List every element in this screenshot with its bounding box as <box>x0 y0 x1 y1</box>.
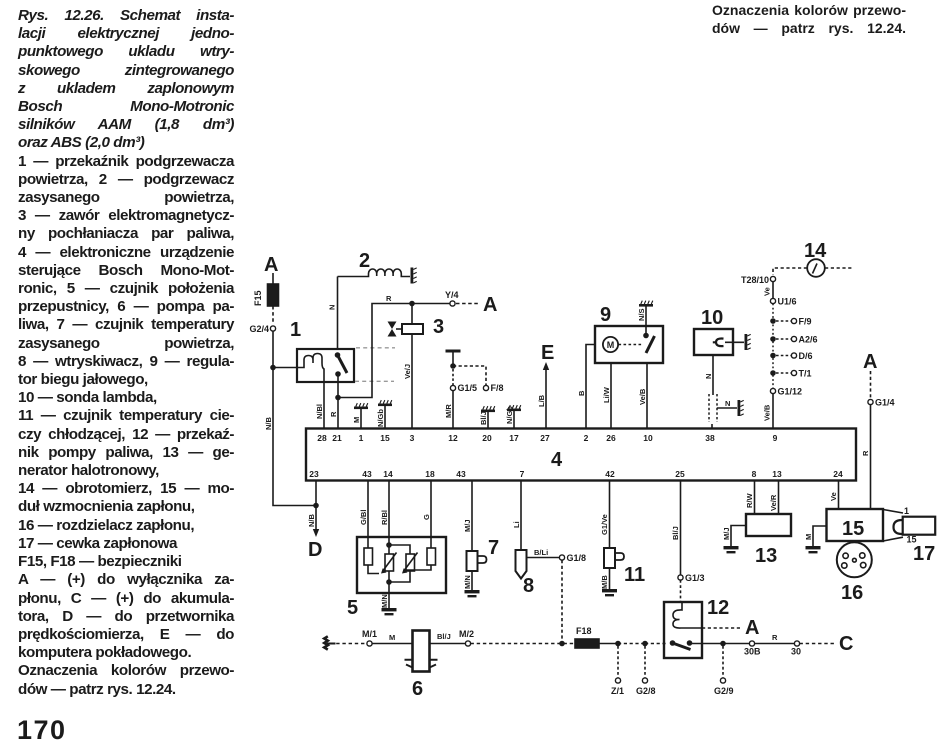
wire 8 branch to G1/8 <box>527 557 560 559</box>
connector M/2 <box>465 641 470 646</box>
svg-text:D: D <box>308 539 322 561</box>
svg-text:7: 7 <box>520 469 525 479</box>
svg-text:20: 20 <box>482 433 492 443</box>
relay 1 switch pivot <box>335 371 341 377</box>
resistor b in 5 <box>385 554 394 571</box>
connector G1/3 <box>678 575 683 580</box>
svg-text:M/B: M/B <box>600 575 609 589</box>
svg-text:Ve/R: Ve/R <box>769 494 778 511</box>
wire pin 8 to hall sender 13 <box>754 481 756 514</box>
svg-text:25: 25 <box>675 469 685 479</box>
dashed wire 12 to A <box>702 627 742 629</box>
coolant sensor 11 body <box>604 548 615 568</box>
dashed wire A to G1/4 <box>870 371 872 399</box>
svg-text:N/Gb: N/Gb <box>505 406 514 424</box>
svg-text:Li/W: Li/W <box>602 386 611 403</box>
tachometer 14 gauge <box>807 259 825 277</box>
svg-text:43: 43 <box>362 469 372 479</box>
svg-text:T28/10: T28/10 <box>741 275 769 285</box>
svg-text:4: 4 <box>551 449 563 471</box>
shield branch to chassis <box>717 407 737 409</box>
svg-text:8: 8 <box>523 575 534 597</box>
svg-text:Bl/J: Bl/J <box>671 526 680 540</box>
connector G2/9 <box>720 678 725 683</box>
wire junction to Y/4 <box>412 303 450 305</box>
dashed branch D/6 <box>776 355 791 357</box>
svg-text:30B: 30B <box>744 647 761 657</box>
svg-text:N: N <box>328 305 337 310</box>
switch contact in 9 <box>643 333 649 339</box>
connector G1/5 <box>450 385 455 390</box>
wire pin21 from switch <box>337 374 339 428</box>
svg-text:Ve: Ve <box>829 492 838 501</box>
wire switch junction to purge valve riser <box>338 304 412 398</box>
svg-text:B: B <box>577 390 586 396</box>
svg-text:G2/4: G2/4 <box>249 324 269 334</box>
svg-text:A: A <box>264 254 278 276</box>
relay 12 switch blade <box>673 643 691 650</box>
wire 7 to ground <box>471 571 473 590</box>
svg-text:15: 15 <box>380 433 390 443</box>
relay 1 box <box>297 349 354 382</box>
chassis ground above 9 <box>639 301 653 307</box>
wire to 30B <box>723 643 749 645</box>
wire to relay 1 <box>273 367 297 369</box>
hall sender 13 box <box>746 514 791 536</box>
wire A to F15 <box>272 273 274 284</box>
svg-text:30: 30 <box>791 647 801 657</box>
connector D/6 <box>791 353 796 358</box>
node junction D/6 <box>770 353 776 359</box>
connector G1/8 <box>559 555 564 560</box>
node junction bottom 5 <box>386 579 392 585</box>
wire wiper b down to ground <box>388 571 390 608</box>
wire G1/4 down to module 15 <box>870 405 872 510</box>
svg-text:A: A <box>745 617 759 639</box>
svg-text:17: 17 <box>913 543 935 565</box>
svg-text:M/1: M/1 <box>362 629 377 639</box>
wire T28/10 to U1/6 <box>772 282 774 299</box>
dashed rail to M/1 <box>330 643 366 645</box>
svg-text:21: 21 <box>332 433 342 443</box>
ECU box U4 outline <box>306 429 856 481</box>
wire F18 to junction <box>599 643 618 645</box>
relay 12 switch contact left <box>670 640 676 646</box>
relay 1 switch contact <box>335 352 341 358</box>
wire 10 down <box>712 355 714 395</box>
svg-text:U1/6: U1/6 <box>778 297 797 307</box>
svg-text:Ve: Ve <box>763 287 772 296</box>
wire to pin 38 <box>711 424 713 428</box>
ground below 5 <box>382 608 397 615</box>
ECU bottom pin numbers 23 43 14 18 43 7 42 25 8 13 24 <box>309 469 843 479</box>
dashed wire G1/3 to relay 12 <box>680 580 682 602</box>
svg-text:Ve/B: Ve/B <box>763 404 772 421</box>
svg-text:N/Bl: N/Bl <box>315 404 324 419</box>
page number <box>17 715 67 746</box>
svg-text:9: 9 <box>773 433 778 443</box>
svg-text:G1/5: G1/5 <box>458 383 478 393</box>
svg-text:6: 6 <box>412 678 423 700</box>
ignition coil 17 box <box>903 517 936 535</box>
wire 10 to chassis right <box>725 341 744 343</box>
wire 9 contact to chassis above <box>645 304 647 336</box>
svg-text:27: 27 <box>540 433 550 443</box>
wire pin 7 to injector 8 <box>520 481 522 550</box>
svg-text:M/N: M/N <box>380 594 389 608</box>
svg-text:2: 2 <box>359 250 370 272</box>
svg-text:G/Bl: G/Bl <box>359 510 368 525</box>
antenna bar above G1/5 <box>446 350 461 353</box>
svg-text:B/Li: B/Li <box>534 548 548 557</box>
node junction F/9 <box>770 318 776 324</box>
dashed branch A2/6 <box>776 338 791 340</box>
node junction in 5 <box>386 542 392 548</box>
svg-text:G2/8: G2/8 <box>636 686 656 696</box>
relay 1 switch blade <box>338 356 347 373</box>
dashed drop G2/8 <box>644 646 646 678</box>
ground pin 17 <box>513 411 515 428</box>
relay 12 coil <box>673 602 702 628</box>
svg-text:10: 10 <box>643 433 653 443</box>
left rail break connector <box>324 636 328 649</box>
chassis wall right of 10 <box>745 334 751 350</box>
connector T28/10 <box>770 276 775 281</box>
svg-text:N/S: N/S <box>637 308 646 321</box>
temp sensor 7 body <box>467 551 478 571</box>
connector G1/12 <box>770 388 775 393</box>
wire pin 43 to sensor 5 <box>367 481 369 548</box>
svg-text:38: 38 <box>705 433 715 443</box>
ECU top pin numbers 28 21 1 15 3 12 20 17 27 2 26 10 38 9 <box>317 433 777 443</box>
distributor 16 contacts <box>843 553 848 558</box>
connector Z/1 <box>615 678 620 683</box>
svg-text:M/R: M/R <box>444 404 453 418</box>
wire bar to junction <box>452 353 454 367</box>
connector 30B <box>749 641 754 646</box>
connector F/9 <box>791 318 796 323</box>
svg-text:13: 13 <box>755 545 777 567</box>
wire pin 18 to sensor 5 <box>430 481 432 548</box>
wire 15 to ground <box>813 526 827 546</box>
fuse F15 <box>268 284 279 306</box>
ground left of 13 <box>724 546 739 553</box>
idle regulator 9 box <box>595 326 663 363</box>
svg-text:1: 1 <box>359 433 364 443</box>
relay 12 switch contact right <box>687 640 693 646</box>
svg-text:Ve/B: Ve/B <box>638 388 647 405</box>
wire resistor d tap <box>404 565 431 570</box>
svg-text:L/B: L/B <box>537 394 546 407</box>
wire link c to b <box>389 571 410 582</box>
node junction A2/6 <box>770 336 776 342</box>
wire G1/12 to pin 9 <box>772 394 774 429</box>
wire switch top to heater 2 <box>337 277 339 350</box>
svg-text:R: R <box>329 411 338 417</box>
svg-text:9: 9 <box>600 304 611 326</box>
svg-text:16: 16 <box>841 582 863 604</box>
svg-text:13: 13 <box>772 469 782 479</box>
fuse F18 <box>575 639 599 648</box>
svg-text:D/6: D/6 <box>799 351 813 361</box>
svg-text:F/9: F/9 <box>799 317 812 327</box>
connector U1/6 <box>770 298 775 303</box>
wire rail through 12 <box>689 643 723 645</box>
wire pin 43b to sensor 7 <box>471 481 473 551</box>
svg-text:N: N <box>725 399 730 408</box>
node junction Y/4 riser <box>409 301 415 307</box>
svg-text:N: N <box>704 374 713 379</box>
svg-text:N/B: N/B <box>264 417 273 431</box>
connector G2/4 <box>270 326 275 331</box>
wire pin 24 to module 15 <box>838 481 840 509</box>
left caption column <box>18 7 234 699</box>
ground below 11 <box>602 589 617 596</box>
svg-text:N/B: N/B <box>307 514 316 528</box>
node junction G2/8 <box>642 641 648 647</box>
fuel pump relay 12 box <box>664 602 702 658</box>
svg-text:A: A <box>863 351 877 373</box>
svg-text:1: 1 <box>904 506 909 516</box>
heater 2 element <box>338 269 411 277</box>
wire 9 switch to pin 10 <box>646 363 648 428</box>
svg-text:7: 7 <box>488 537 499 559</box>
svg-text:3: 3 <box>410 433 415 443</box>
shielded pair dashed <box>708 394 710 422</box>
lambda probe 10 box <box>694 329 733 355</box>
svg-text:2: 2 <box>584 433 589 443</box>
svg-text:G1/12: G1/12 <box>778 387 803 397</box>
coil connector bracket <box>894 520 903 534</box>
resistor d in 5 <box>427 548 436 565</box>
svg-text:12: 12 <box>707 597 729 619</box>
connector G1/4 <box>868 399 873 404</box>
svg-text:12: 12 <box>448 433 458 443</box>
svg-text:Z/1: Z/1 <box>611 686 624 696</box>
svg-text:A2/6: A2/6 <box>799 335 818 345</box>
wire junction to G1/5 dashed <box>452 369 454 385</box>
probe symbol in 10 <box>713 338 724 346</box>
node junction on relay feed <box>270 365 276 371</box>
svg-text:43: 43 <box>456 469 466 479</box>
wire pin28 from coil <box>323 381 325 428</box>
coolant sensor 11 nub <box>615 553 624 560</box>
svg-text:M: M <box>607 340 615 350</box>
svg-text:G1/8: G1/8 <box>567 553 587 563</box>
svg-text:M/2: M/2 <box>459 629 474 639</box>
wire G2/4 down to D-branch <box>273 331 316 506</box>
ghost dashes right of relay 1 <box>355 348 395 382</box>
svg-text:10: 10 <box>701 307 723 329</box>
connector M/1 <box>367 641 372 646</box>
wire 13 to ground <box>731 526 746 547</box>
connector F/8 <box>483 385 488 390</box>
wire pin 42 to sensor 11 <box>609 481 611 548</box>
dashed wire 14 right <box>825 267 852 269</box>
ground pin 15 <box>384 406 386 428</box>
dashed branch T/1 <box>776 372 791 374</box>
svg-text:42: 42 <box>605 469 615 479</box>
ignition module 15 box <box>827 509 884 541</box>
distributor 16 circle <box>837 542 872 577</box>
wire pin 13 to hall sender 13 <box>778 481 780 514</box>
relay 1 coil <box>297 354 324 382</box>
chassis wall shield <box>738 400 744 416</box>
svg-text:18: 18 <box>425 469 435 479</box>
svg-text:24: 24 <box>833 469 843 479</box>
svg-text:Ve/J: Ve/J <box>403 364 412 379</box>
dashed rail to G2/8 junction <box>618 643 645 645</box>
fuel pump 6 fins <box>405 660 438 668</box>
wire to D with arrow <box>315 506 317 532</box>
wire pin 25 down to G1/3 <box>680 481 682 575</box>
wiper arrow b <box>384 553 397 571</box>
svg-text:E: E <box>541 342 554 364</box>
wire G1/5 to pin 12 <box>452 391 454 429</box>
wire Y/4 to A dashed <box>456 303 479 305</box>
dashed drop Z/1 <box>617 646 619 678</box>
connector A2/6 <box>791 336 796 341</box>
wire pump 6 to M/2 <box>430 643 466 645</box>
fuel pump 6 body <box>413 631 430 672</box>
svg-text:G1/4: G1/4 <box>875 398 895 408</box>
svg-text:1: 1 <box>290 319 301 341</box>
throttle sensor 5 box <box>357 537 446 593</box>
svg-text:Li: Li <box>512 521 521 528</box>
svg-text:15: 15 <box>842 518 864 540</box>
dashed rail into relay 12 <box>645 643 668 645</box>
svg-text:Y/4: Y/4 <box>445 290 459 300</box>
purge valve 3 valve symbol <box>388 322 397 337</box>
svg-text:T/1: T/1 <box>799 369 812 379</box>
dashed rail M/2 to F18 <box>471 643 576 645</box>
svg-text:23: 23 <box>309 469 319 479</box>
svg-text:F18: F18 <box>576 626 592 636</box>
svg-text:G: G <box>422 514 431 520</box>
svg-text:F/8: F/8 <box>491 383 504 393</box>
connector T/1 <box>791 370 796 375</box>
svg-text:M/J: M/J <box>722 527 731 540</box>
ground below 7 <box>465 590 480 597</box>
link M to switch dashed <box>619 344 643 346</box>
svg-text:G1/3: G1/3 <box>685 573 705 583</box>
svg-text:N/Gb: N/Gb <box>376 409 385 427</box>
node junction G2/9 <box>720 641 726 647</box>
svg-text:C: C <box>839 633 853 655</box>
connector G2/8 <box>642 678 647 683</box>
wire U1/6 down to G1/12 dotted <box>772 304 774 389</box>
purge valve 3 coil box <box>402 324 423 334</box>
ground pin 1 <box>360 409 362 428</box>
svg-text:Bl/J: Bl/J <box>479 411 488 425</box>
svg-text:G1/Ve: G1/Ve <box>600 514 609 535</box>
svg-text:M/N: M/N <box>463 575 472 589</box>
svg-text:R: R <box>772 633 778 642</box>
wire pin 27 to E arrow <box>545 370 547 428</box>
svg-text:5: 5 <box>347 597 358 619</box>
connector 30 <box>794 641 799 646</box>
svg-text:F15: F15 <box>253 290 263 306</box>
svg-text:3: 3 <box>433 316 444 338</box>
wire pin 14 to sensor 5 <box>388 481 390 554</box>
heater 2 chassis wall <box>411 268 417 284</box>
wire riser through valve to pin 3 <box>411 304 413 429</box>
wire resistor a tap <box>368 565 379 574</box>
node junction Z/1 <box>615 641 621 647</box>
wire ECU pin23 down <box>315 481 317 506</box>
svg-text:G2/9: G2/9 <box>714 686 734 696</box>
svg-text:8: 8 <box>752 469 757 479</box>
connector wedge to coil 17 <box>883 510 903 542</box>
junction below relay <box>335 395 341 401</box>
svg-text:26: 26 <box>606 433 616 443</box>
node junction T/1 <box>770 370 776 376</box>
dashed branch F/9 <box>776 320 791 322</box>
svg-text:Bl/J: Bl/J <box>437 632 451 641</box>
svg-text:28: 28 <box>317 433 327 443</box>
resistor a in 5 <box>364 548 373 565</box>
wiper arrow c <box>405 553 418 571</box>
svg-text:M/J: M/J <box>463 519 472 532</box>
dashed drop G2/9 <box>722 646 724 678</box>
wire 11 to ground <box>609 568 611 589</box>
dashed wire 14 left <box>773 268 807 275</box>
temp sensor 7 nub <box>478 556 487 563</box>
resistor c in 5 <box>406 554 415 571</box>
injector 8 body <box>516 550 527 579</box>
svg-text:17: 17 <box>509 433 519 443</box>
dashed wire 30 to C <box>800 643 837 645</box>
wire pin 2 to idle regulator 9 <box>586 345 595 429</box>
svg-text:R/Bl: R/Bl <box>380 510 389 525</box>
svg-text:M: M <box>804 534 813 540</box>
node junction G1/5 <box>450 363 456 369</box>
wire junction to F/8 dashed <box>453 366 486 385</box>
wire top link in 5 <box>389 545 410 554</box>
node junction G1/8 rail <box>559 641 565 647</box>
svg-text:R/W: R/W <box>745 493 754 509</box>
ground left of 15 <box>806 546 821 553</box>
switch blade in 9 <box>646 336 655 353</box>
top-right note <box>712 1 906 37</box>
wire M/1 to pump 6 <box>372 643 412 645</box>
svg-text:14: 14 <box>383 469 393 479</box>
svg-text:M: M <box>389 633 395 642</box>
connector Y/4 <box>450 301 455 306</box>
svg-text:M: M <box>352 417 361 423</box>
junction pin 23 <box>313 503 319 509</box>
ground pin 20 <box>487 412 489 428</box>
wire 9 motor to pin 26 <box>610 363 612 428</box>
svg-text:A: A <box>483 294 497 316</box>
svg-text:R: R <box>386 294 392 303</box>
motor M in 9 <box>603 337 618 352</box>
dashed wire G1/8 down <box>561 560 563 640</box>
svg-text:R: R <box>861 450 870 456</box>
wire F15 to G2/4 dashed <box>272 306 274 324</box>
svg-text:11: 11 <box>624 564 645 586</box>
wire 30B to 30 <box>755 643 795 645</box>
